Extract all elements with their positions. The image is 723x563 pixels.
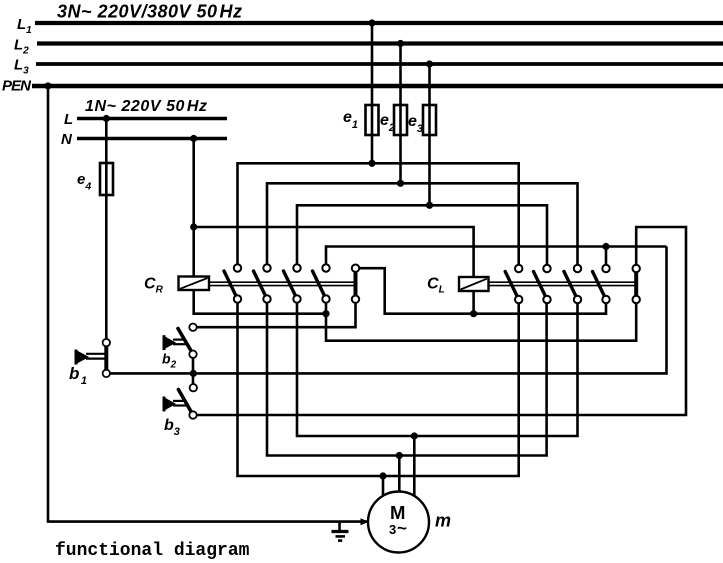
svg-text:L3: L3 <box>14 57 29 77</box>
svg-text:e1: e1 <box>343 109 358 131</box>
earth ground symbol <box>332 522 349 541</box>
svg-text:PEN: PEN <box>2 78 32 95</box>
CL contact 3 terminals <box>574 265 581 272</box>
CR contact 3 blade <box>284 271 298 299</box>
CR contact 2 blade <box>254 271 268 299</box>
wire N junction down to contactor CR coil <box>192 139 195 277</box>
wire PEN drop to motor ground line <box>48 86 368 522</box>
wire b2 top to CR aux bottom <box>193 299 356 327</box>
wire b3 bottom rail to CL aux top (y=415) <box>193 227 686 415</box>
svg-text:N: N <box>61 131 73 148</box>
pushbutton b3 (NO start reverse) <box>164 384 197 419</box>
svg-text:CR: CR <box>144 276 164 296</box>
wire CL contact4 top drop <box>605 247 608 269</box>
CL contact 1 blade <box>505 272 519 300</box>
svg-text:3N~ 220V/380V 50 Hz: 3N~ 220V/380V 50 Hz <box>57 2 242 22</box>
svg-text:e4: e4 <box>77 171 91 193</box>
wire interlock net: CR contact4 top - CL contact4 top - corner x666 <box>326 247 667 269</box>
CL contact 2 terminals <box>543 265 550 272</box>
CL auxiliary contact bar <box>634 269 638 300</box>
fuse e2 <box>394 105 407 135</box>
wire motor feed 3 <box>413 436 416 500</box>
CR contact 2 terminals <box>263 264 270 271</box>
junction e3 node <box>426 202 433 209</box>
junction on L3 <box>426 60 433 67</box>
wire L1 junction down through fuse e1 <box>371 23 374 163</box>
svg-text:~: ~ <box>397 519 407 538</box>
bus wire L1 <box>35 21 723 25</box>
wire CR coil bottom to contact4 drop (line A) <box>194 290 326 314</box>
junction line A end <box>322 310 329 317</box>
wire CR contact4 bottom to CL aux bottom (y=340.7) <box>326 299 636 341</box>
wire N branch to contactor CL coil <box>194 227 474 277</box>
CR contact 4 blade <box>313 271 327 299</box>
junction motor feed 2 <box>396 452 403 459</box>
contactor CL coil <box>459 277 489 291</box>
wire CR contact1 bottom - motor phase line - CL contact1 bottom (y=476) <box>238 299 519 476</box>
junction e2 node <box>397 180 404 187</box>
svg-text:L2: L2 <box>14 37 29 57</box>
junction N branch <box>190 223 197 230</box>
wire CR aux top - corner - CL contact4 bottom (line D) <box>356 268 607 314</box>
svg-text:functional diagram: functional diagram <box>55 541 250 561</box>
CL contact 4 terminals <box>602 265 609 272</box>
CR aux terminals <box>352 265 359 272</box>
bus wire L3 <box>36 62 723 66</box>
junction e1 node <box>368 160 375 167</box>
wire CL coil bottom to line D <box>472 291 475 314</box>
fuse e1 <box>366 105 379 135</box>
CL contact 2 blade <box>534 272 548 300</box>
junction on L1 <box>368 19 375 26</box>
wire b2 bottom to b3 top <box>192 354 195 388</box>
svg-text:b1: b1 <box>69 364 87 387</box>
wire phase1: CR contact1 top - e1 node - CL contact1 top <box>238 163 519 268</box>
CR contact 1 terminals <box>234 264 241 271</box>
svg-text:b3: b3 <box>164 417 180 438</box>
fuse e3 <box>423 105 436 135</box>
motor terminal triangle <box>361 518 370 525</box>
junction CL coil bottom <box>470 310 477 317</box>
CR contact 3 terminals <box>293 264 300 271</box>
junction on L2 <box>397 40 404 47</box>
wire phase2: CR contact2 top - e2 node - CL contact3 top <box>267 183 578 268</box>
junction on N <box>190 135 197 142</box>
svg-text:CL: CL <box>427 276 445 296</box>
CL contact 3 blade <box>564 272 578 300</box>
fuse e4 <box>100 163 113 195</box>
CL contact 4 blade <box>593 272 607 300</box>
CR contact 1 blade <box>224 271 238 299</box>
mechanical linkage CR <box>209 282 354 285</box>
wire CR contact3 bottom - motor phase line - CL contact3 bottom (y=436) <box>297 299 578 436</box>
CL contact 1 terminals <box>515 265 522 272</box>
svg-text:L1: L1 <box>17 16 32 36</box>
control wire N <box>77 137 227 140</box>
junction on L <box>103 115 110 122</box>
wire b1 bottom rail to interlock corner (y=373.4) <box>106 247 666 374</box>
wire CR contact2 bottom - motor phase line - CL contact2 bottom (y=455.5) <box>267 299 547 456</box>
CL aux terminals <box>633 265 640 272</box>
pushbutton b2 (NO start forward) <box>164 324 197 358</box>
control wire L <box>77 117 227 120</box>
CR auxiliary contact bar <box>354 268 358 299</box>
pushbutton b1 (NC stop button) <box>76 339 110 377</box>
bus wire PEN <box>32 84 723 89</box>
junction motor feed 1 <box>379 472 386 479</box>
contactor CR coil <box>179 277 210 291</box>
wire L2 junction down through fuse e2 <box>399 44 402 184</box>
svg-text:3: 3 <box>389 522 396 537</box>
mechanical linkage CL <box>489 282 635 285</box>
wire phase3: CR contact3 top - e3 node - CL contact2 top <box>297 205 547 268</box>
svg-text:e3: e3 <box>408 113 423 135</box>
junction on PEN <box>44 82 51 89</box>
wire motor feed 2 <box>398 456 401 496</box>
svg-text:1N~ 220V 50 Hz: 1N~ 220V 50 Hz <box>85 98 207 115</box>
wire L3 junction down through fuse e3 <box>428 64 431 205</box>
bus wire L2 <box>37 41 723 45</box>
wire L to fuse e4 to pushbutton b1 <box>105 119 108 343</box>
wire motor feed 1 <box>382 476 385 500</box>
svg-text:L: L <box>64 111 73 128</box>
svg-text:b2: b2 <box>162 351 177 371</box>
svg-text:m: m <box>435 511 451 531</box>
CR contact 4 terminals <box>322 264 329 271</box>
junction motor feed 3 <box>411 432 418 439</box>
junction b1 b2 b3 <box>190 370 197 377</box>
motor M 3~ <box>368 492 429 553</box>
junction CL contact4 top <box>602 243 609 250</box>
